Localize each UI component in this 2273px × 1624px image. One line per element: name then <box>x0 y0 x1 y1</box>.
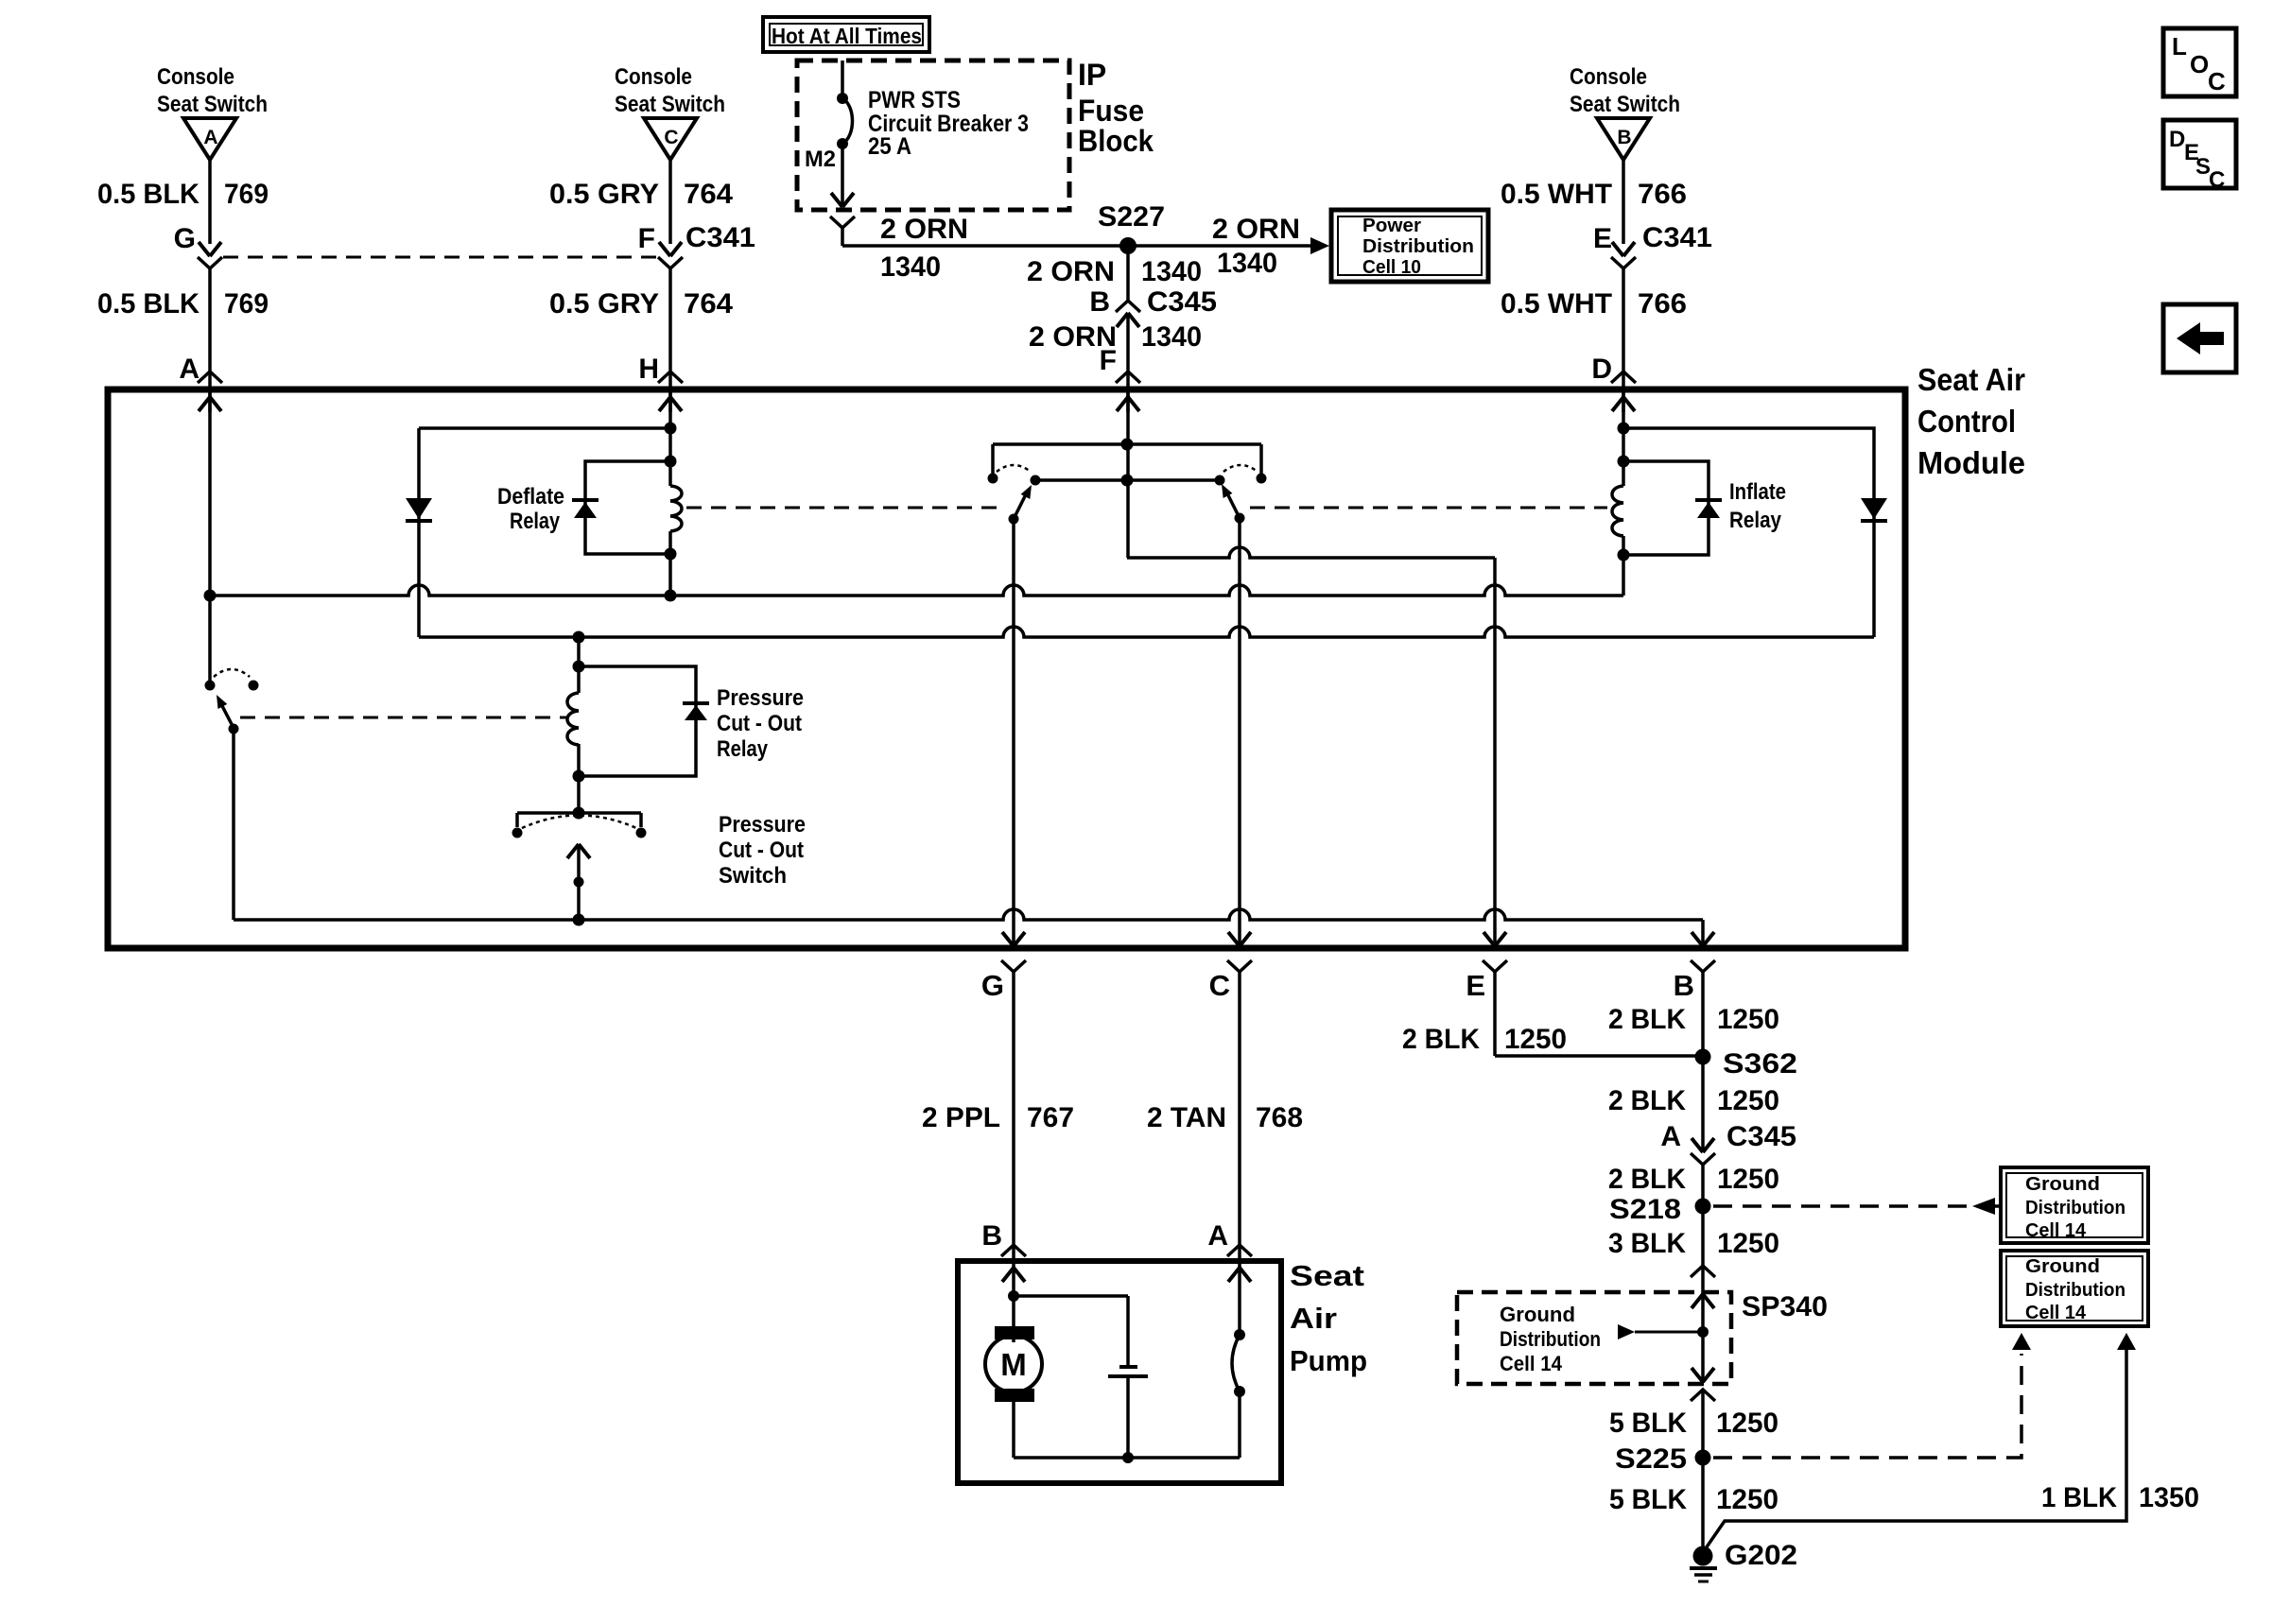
svg-text:Ground: Ground <box>2025 1174 2100 1195</box>
svg-text:0.5 WHT: 0.5 WHT <box>1501 179 1612 210</box>
svg-text:1250: 1250 <box>1717 1164 1779 1195</box>
svg-text:Cell 14: Cell 14 <box>1500 1352 1563 1375</box>
svg-text:1340: 1340 <box>1141 321 1202 353</box>
svg-text:IP: IP <box>1078 58 1106 92</box>
svg-text:0.5 BLK: 0.5 BLK <box>97 179 200 210</box>
svg-text:Console: Console <box>1570 64 1647 90</box>
svg-text:G: G <box>981 969 1004 1002</box>
svg-text:2 ORN: 2 ORN <box>880 214 968 245</box>
svg-text:2 PPL: 2 PPL <box>922 1102 1000 1133</box>
svg-text:1250: 1250 <box>1717 1085 1779 1116</box>
svg-text:M2: M2 <box>805 147 836 172</box>
svg-text:C341: C341 <box>1642 222 1712 253</box>
svg-text:Relay: Relay <box>717 736 769 762</box>
svg-text:769: 769 <box>224 179 269 210</box>
svg-text:G: G <box>174 223 196 254</box>
svg-text:769: 769 <box>224 288 269 320</box>
svg-text:S362: S362 <box>1723 1048 1797 1080</box>
svg-text:1340: 1340 <box>1217 248 1277 279</box>
svg-text:A: A <box>1660 1121 1681 1152</box>
svg-text:O: O <box>2190 50 2209 78</box>
svg-text:E: E <box>1466 969 1485 1002</box>
svg-text:2 ORN: 2 ORN <box>1212 214 1300 245</box>
svg-text:Fuse: Fuse <box>1078 94 1144 128</box>
svg-text:Cell 10: Cell 10 <box>1362 257 1421 278</box>
svg-text:Cell 14: Cell 14 <box>2025 1303 2087 1323</box>
svg-text:1 BLK: 1 BLK <box>2041 1482 2117 1513</box>
svg-text:L: L <box>2172 32 2187 60</box>
svg-text:Seat: Seat <box>1290 1259 1364 1292</box>
svg-text:B: B <box>981 1220 1002 1252</box>
svg-text:Ground: Ground <box>2025 1256 2100 1277</box>
svg-text:Control: Control <box>1917 404 2016 439</box>
svg-text:C341: C341 <box>685 222 755 253</box>
svg-text:F: F <box>638 223 655 254</box>
svg-text:0.5 WHT: 0.5 WHT <box>1501 288 1612 320</box>
svg-text:1340: 1340 <box>880 251 941 283</box>
svg-text:B: B <box>1089 286 1110 318</box>
svg-text:Distribution: Distribution <box>2025 1198 2126 1218</box>
svg-text:5 BLK: 5 BLK <box>1609 1484 1687 1515</box>
svg-text:Seat Switch: Seat Switch <box>1570 92 1680 117</box>
svg-text:Block: Block <box>1078 124 1154 158</box>
svg-text:1350: 1350 <box>2139 1482 2199 1513</box>
svg-text:D: D <box>1591 354 1612 385</box>
svg-text:2 TAN: 2 TAN <box>1147 1102 1226 1133</box>
svg-text:H: H <box>638 354 659 385</box>
svg-text:S227: S227 <box>1098 201 1165 233</box>
svg-text:Hot At All Times: Hot At All Times <box>772 24 922 48</box>
svg-text:Cut - Out: Cut - Out <box>717 711 802 736</box>
svg-text:SP340: SP340 <box>1742 1291 1828 1322</box>
svg-text:764: 764 <box>684 179 733 210</box>
svg-text:A: A <box>1207 1220 1228 1252</box>
svg-text:E: E <box>1593 223 1612 254</box>
svg-text:1250: 1250 <box>1716 1408 1778 1439</box>
svg-text:C: C <box>1209 969 1230 1002</box>
svg-text:G202: G202 <box>1725 1540 1797 1571</box>
svg-text:2 BLK: 2 BLK <box>1608 1004 1686 1035</box>
svg-text:Seat Switch: Seat Switch <box>157 92 268 117</box>
svg-text:Distribution: Distribution <box>2025 1280 2126 1301</box>
svg-text:Console: Console <box>615 64 692 90</box>
svg-text:C: C <box>664 127 678 148</box>
svg-text:2 ORN: 2 ORN <box>1027 256 1115 287</box>
svg-text:1250: 1250 <box>1717 1228 1779 1259</box>
svg-text:Distribution: Distribution <box>1362 236 1474 257</box>
svg-text:Seat Switch: Seat Switch <box>615 92 725 117</box>
svg-text:1340: 1340 <box>1141 256 1202 287</box>
svg-text:25 A: 25 A <box>868 133 911 160</box>
svg-text:766: 766 <box>1638 179 1687 210</box>
svg-text:Air: Air <box>1290 1302 1337 1335</box>
svg-text:1250: 1250 <box>1717 1004 1779 1035</box>
svg-text:Relay: Relay <box>510 509 561 534</box>
svg-text:Distribution: Distribution <box>1500 1327 1601 1351</box>
svg-text:Cut - Out: Cut - Out <box>719 838 804 863</box>
svg-text:F: F <box>1100 345 1117 376</box>
svg-text:Seat Air: Seat Air <box>1917 362 2025 397</box>
svg-text:PWR STS: PWR STS <box>868 87 961 113</box>
svg-text:764: 764 <box>684 288 733 320</box>
svg-text:Pressure: Pressure <box>717 685 804 711</box>
svg-text:0.5 BLK: 0.5 BLK <box>97 288 200 320</box>
svg-text:Pressure: Pressure <box>719 812 806 838</box>
svg-text:Switch: Switch <box>719 863 787 889</box>
svg-text:Module: Module <box>1917 445 2025 480</box>
svg-text:0.5 GRY: 0.5 GRY <box>549 179 659 210</box>
svg-text:C: C <box>2208 67 2226 95</box>
svg-text:Power: Power <box>1362 216 1421 236</box>
svg-text:0.5 GRY: 0.5 GRY <box>549 288 659 320</box>
svg-text:Inflate: Inflate <box>1729 479 1786 505</box>
svg-text:A: A <box>179 354 200 385</box>
svg-text:D: D <box>2169 127 2185 152</box>
svg-text:2 BLK: 2 BLK <box>1608 1164 1686 1195</box>
svg-text:766: 766 <box>1638 288 1687 320</box>
svg-text:B: B <box>1617 127 1631 148</box>
svg-text:Cell 14: Cell 14 <box>2025 1220 2087 1241</box>
svg-text:3 BLK: 3 BLK <box>1608 1228 1686 1259</box>
svg-text:C345: C345 <box>1147 286 1217 318</box>
svg-text:768: 768 <box>1256 1102 1303 1133</box>
svg-text:C: C <box>2209 167 2225 193</box>
svg-text:2 BLK: 2 BLK <box>1608 1085 1686 1116</box>
svg-text:Console: Console <box>157 64 234 90</box>
svg-text:1250: 1250 <box>1716 1484 1778 1515</box>
svg-text:767: 767 <box>1027 1102 1074 1133</box>
svg-text:S225: S225 <box>1615 1443 1687 1475</box>
svg-text:5 BLK: 5 BLK <box>1609 1408 1687 1439</box>
svg-text:Ground: Ground <box>1500 1303 1575 1326</box>
svg-text:Deflate: Deflate <box>497 484 564 510</box>
svg-text:2 BLK: 2 BLK <box>1402 1024 1480 1055</box>
svg-text:M: M <box>1000 1347 1027 1382</box>
svg-text:B: B <box>1674 969 1694 1002</box>
svg-text:A: A <box>203 127 217 148</box>
svg-text:S218: S218 <box>1609 1194 1681 1225</box>
svg-text:1250: 1250 <box>1504 1024 1567 1055</box>
svg-text:Pump: Pump <box>1290 1344 1367 1377</box>
svg-text:C345: C345 <box>1726 1121 1796 1152</box>
svg-text:Relay: Relay <box>1729 508 1782 533</box>
